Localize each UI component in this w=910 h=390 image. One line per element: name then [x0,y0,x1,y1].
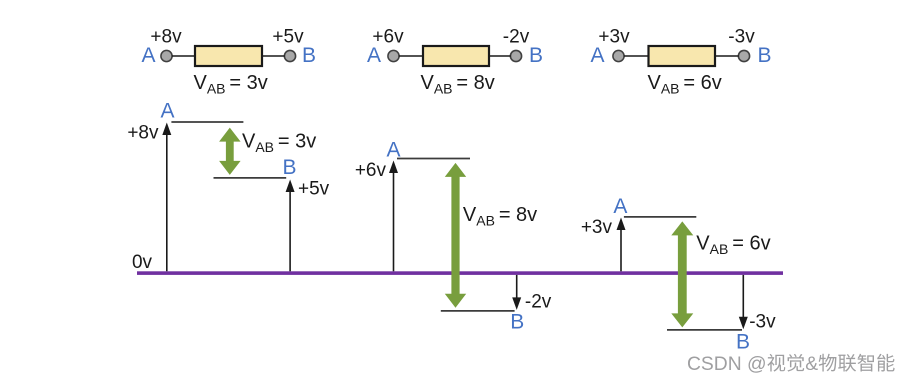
svg-text:+6v: +6v [372,27,404,48]
svg-text:A: A [613,195,627,218]
svg-text:+3v: +3v [581,217,613,238]
svg-text:VAB = 3v: VAB = 3v [242,130,316,155]
svg-text:+5v: +5v [272,27,304,48]
svg-text:VAB = 8v: VAB = 8v [463,204,537,229]
svg-text:B: B [736,331,750,354]
svg-text:CSDN @: CSDN @ [687,354,767,375]
svg-text:B: B [510,311,524,334]
svg-text:B: B [529,44,543,67]
svg-text:-3v: -3v [728,27,755,48]
svg-text:-3v: -3v [749,312,776,333]
svg-text:VAB = 8v: VAB = 8v [421,72,495,97]
svg-text:+8v: +8v [150,27,182,48]
svg-text:B: B [302,44,316,67]
svg-text:-2v: -2v [525,292,552,313]
svg-text:VAB = 6v: VAB = 6v [696,232,770,257]
svg-text:&: & [805,354,818,375]
svg-text:VAB = 3v: VAB = 3v [194,72,268,97]
svg-text:+5v: +5v [298,179,330,200]
svg-text:B: B [282,156,296,179]
svg-text:VAB = 6v: VAB = 6v [648,72,722,97]
svg-text:+3v: +3v [598,27,630,48]
svg-text:+6v: +6v [355,160,387,181]
svg-text:A: A [160,99,174,122]
svg-text:0v: 0v [132,252,153,273]
svg-text:B: B [757,44,771,67]
svg-text:-2v: -2v [503,27,530,48]
svg-text:+8v: +8v [127,122,159,143]
